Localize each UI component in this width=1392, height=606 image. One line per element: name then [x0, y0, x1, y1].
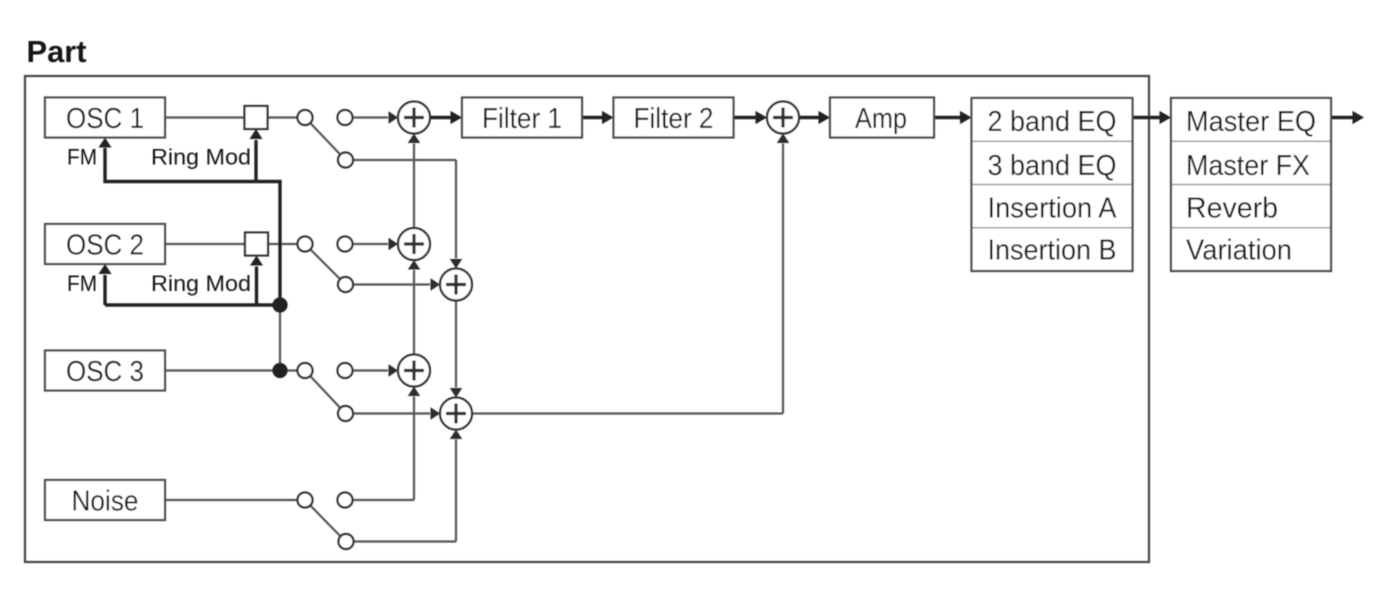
- svg-text:Amp: Amp: [855, 103, 907, 135]
- svg-text:2 band EQ: 2 band EQ: [988, 106, 1117, 138]
- svg-text:FM: FM: [67, 271, 97, 296]
- svg-text:Insertion B: Insertion B: [988, 235, 1117, 267]
- svg-text:Part: Part: [27, 34, 87, 69]
- svg-text:FM: FM: [67, 145, 97, 170]
- svg-text:OSC 1: OSC 1: [66, 103, 144, 135]
- svg-text:OSC 2: OSC 2: [66, 230, 144, 262]
- svg-text:3 band EQ: 3 band EQ: [988, 150, 1117, 182]
- svg-text:Master EQ: Master EQ: [1186, 106, 1316, 138]
- svg-text:Noise: Noise: [72, 486, 139, 518]
- svg-text:Ring Mod: Ring Mod: [151, 271, 251, 296]
- svg-text:Variation: Variation: [1186, 235, 1292, 267]
- svg-text:Filter 1: Filter 1: [482, 103, 562, 135]
- svg-text:Ring Mod: Ring Mod: [151, 145, 251, 170]
- svg-text:Master FX: Master FX: [1186, 150, 1310, 182]
- svg-text:Reverb: Reverb: [1186, 193, 1278, 225]
- svg-text:Filter 2: Filter 2: [634, 103, 714, 135]
- svg-text:OSC 3: OSC 3: [66, 356, 144, 388]
- svg-text:Insertion A: Insertion A: [988, 193, 1118, 225]
